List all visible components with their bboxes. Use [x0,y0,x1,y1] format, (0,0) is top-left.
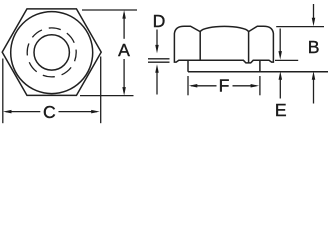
svg-text:B: B [308,37,320,57]
dimension F extension line right [259,76,261,95]
label F [219,76,230,96]
dimension B arrow bottom [312,71,316,103]
svg-text:C: C [43,102,56,122]
dimension B extension line top [276,26,324,28]
dimension C arrow right [59,110,100,114]
dimension A extension line top [82,9,137,11]
thread circle (dashed) [27,28,76,77]
dimension F arrow right [233,84,260,88]
hex nut front view hexagon [2,9,101,96]
dimension B arrow top [312,4,316,26]
dimension C extension line right [100,57,102,124]
dimension C extension line left [2,59,4,124]
label B [308,37,320,57]
dimension A arrow down [122,59,126,96]
side view facet line right [248,32,250,63]
label D [153,11,166,31]
svg-text:A: A [118,40,130,60]
dimension D tick bottom [148,61,170,63]
dimension E arrow bottom [279,71,283,98]
dimension F extension line left [187,76,189,95]
dimension E extension line (bearing surface) [275,59,298,61]
dimension F arrow left [189,84,217,88]
dimension A arrow up [122,10,126,39]
side view body outline [174,26,273,63]
svg-text:E: E [275,100,287,120]
label E [275,100,287,120]
side view washer face [188,60,328,72]
side view facet line left [199,32,201,61]
svg-text:D: D [153,11,166,31]
chamfer circle (inscribed circle) [11,12,93,94]
dimension D arrow up [155,64,159,94]
hole circle [34,35,69,70]
dimension C arrow left [3,110,40,114]
label C [43,102,56,122]
dimension A extension line bottom [80,95,134,97]
dimension E arrow top [278,29,282,60]
label A [118,40,130,60]
dimension D arrow down [155,30,159,54]
dimension D tick top [148,58,170,60]
svg-text:F: F [219,76,230,96]
